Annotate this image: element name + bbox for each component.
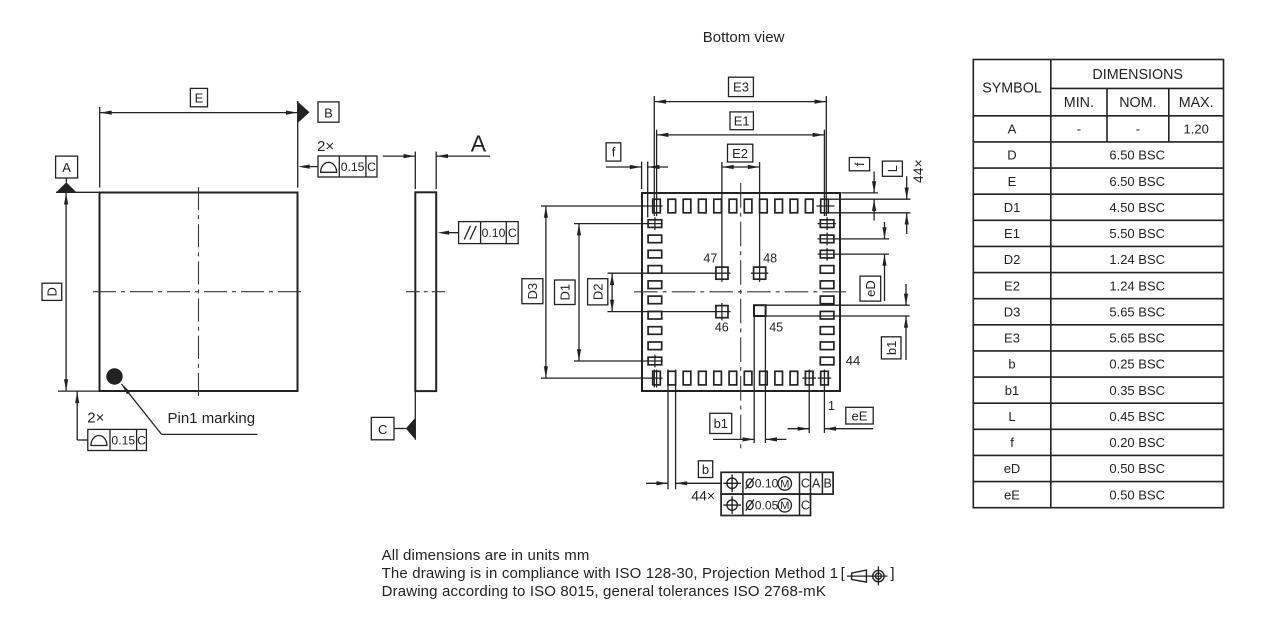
- svg-text:D3: D3: [1004, 304, 1021, 319]
- svg-text:-: -: [1136, 122, 1140, 137]
- svg-text:eD: eD: [1004, 461, 1021, 476]
- svg-text:44×: 44×: [691, 487, 715, 503]
- svg-text:5.65 BSC: 5.65 BSC: [1109, 331, 1165, 346]
- svg-text:6.50 BSC: 6.50 BSC: [1109, 174, 1165, 189]
- svg-text:48: 48: [763, 251, 777, 265]
- svg-text:0.05: 0.05: [755, 499, 779, 513]
- svg-text:4.50 BSC: 4.50 BSC: [1109, 200, 1165, 215]
- svg-text:6.50 BSC: 6.50 BSC: [1109, 148, 1165, 163]
- svg-text:]: ]: [890, 565, 894, 582]
- svg-text:46: 46: [715, 321, 729, 335]
- svg-text:D2: D2: [1004, 252, 1021, 267]
- svg-text:The drawing is in compliance w: The drawing is in compliance with ISO 12…: [382, 565, 839, 582]
- svg-text:L: L: [1008, 409, 1015, 424]
- svg-text:MAX.: MAX.: [1179, 95, 1214, 111]
- svg-text:D1: D1: [1004, 200, 1021, 215]
- svg-text:f: f: [612, 145, 616, 160]
- svg-text:1: 1: [828, 399, 835, 413]
- svg-text:0.45 BSC: 0.45 BSC: [1109, 409, 1165, 424]
- svg-text:D: D: [1007, 148, 1016, 163]
- svg-text:MIN.: MIN.: [1064, 95, 1094, 111]
- svg-text:B: B: [324, 106, 333, 121]
- svg-text:44: 44: [846, 353, 860, 368]
- svg-text:1.24 BSC: 1.24 BSC: [1109, 278, 1165, 293]
- svg-text:A: A: [812, 477, 821, 491]
- svg-text:f: f: [853, 162, 867, 166]
- svg-text:A: A: [1008, 122, 1017, 137]
- svg-text:DIMENSIONS: DIMENSIONS: [1092, 67, 1183, 83]
- svg-text:eD: eD: [863, 280, 878, 297]
- svg-text:M: M: [780, 478, 789, 490]
- svg-text:D1: D1: [558, 284, 573, 301]
- svg-text:C: C: [508, 226, 517, 240]
- svg-text:b1: b1: [884, 341, 899, 355]
- svg-text:Pin1 marking: Pin1 marking: [168, 410, 256, 427]
- svg-text:45: 45: [769, 321, 783, 335]
- svg-text:D3: D3: [525, 283, 540, 300]
- svg-text:eE: eE: [1004, 487, 1020, 502]
- svg-text:E3: E3: [733, 80, 749, 95]
- svg-text:0.10: 0.10: [755, 477, 779, 491]
- svg-text:0.50 BSC: 0.50 BSC: [1109, 461, 1165, 476]
- svg-text:E: E: [195, 90, 204, 105]
- svg-text:A: A: [471, 131, 487, 157]
- svg-text:All dimensions are in units mm: All dimensions are in units mm: [382, 547, 590, 564]
- svg-text:0.35 BSC: 0.35 BSC: [1109, 383, 1165, 398]
- svg-text:5.65 BSC: 5.65 BSC: [1109, 304, 1165, 319]
- svg-text:E3: E3: [1004, 331, 1020, 346]
- svg-text:2×: 2×: [87, 409, 104, 426]
- svg-text:D: D: [45, 287, 60, 296]
- svg-text:b: b: [1008, 357, 1015, 372]
- svg-text:f: f: [1010, 435, 1014, 450]
- svg-text:44×: 44×: [910, 159, 926, 183]
- svg-text:E1: E1: [1004, 226, 1020, 241]
- svg-text:0.10: 0.10: [482, 226, 506, 240]
- svg-text:5.50 BSC: 5.50 BSC: [1109, 226, 1165, 241]
- svg-text:0.20 BSC: 0.20 BSC: [1109, 435, 1165, 450]
- svg-text:eE: eE: [852, 408, 868, 423]
- svg-text:C: C: [137, 433, 146, 447]
- svg-text:1.24 BSC: 1.24 BSC: [1109, 252, 1165, 267]
- svg-text:b1: b1: [1005, 383, 1019, 398]
- svg-text:E2: E2: [1004, 278, 1020, 293]
- svg-text:L: L: [886, 165, 900, 172]
- svg-text:b: b: [702, 462, 709, 477]
- svg-text:Drawing according to ISO 8015,: Drawing according to ISO 8015, general t…: [382, 583, 826, 600]
- svg-text:D2: D2: [590, 283, 605, 300]
- svg-text:2×: 2×: [317, 138, 334, 155]
- svg-text:47: 47: [703, 251, 717, 265]
- svg-text:C: C: [801, 499, 810, 513]
- svg-text:b1: b1: [714, 416, 728, 431]
- svg-text:C: C: [378, 422, 387, 437]
- svg-text:SYMBOL: SYMBOL: [982, 81, 1042, 97]
- svg-text:NOM.: NOM.: [1119, 95, 1156, 111]
- svg-text:0.50 BSC: 0.50 BSC: [1109, 487, 1165, 502]
- svg-text:C: C: [367, 160, 376, 174]
- svg-text:M: M: [780, 500, 789, 512]
- svg-text:C: C: [801, 477, 810, 491]
- svg-text:-: -: [1077, 122, 1081, 137]
- svg-text:0.15: 0.15: [111, 433, 135, 447]
- svg-text:0.15: 0.15: [341, 160, 365, 174]
- svg-text:0.25 BSC: 0.25 BSC: [1109, 357, 1165, 372]
- svg-text:1.20: 1.20: [1184, 122, 1209, 137]
- svg-text:A: A: [62, 160, 71, 175]
- svg-text:E2: E2: [732, 146, 748, 161]
- svg-text:E: E: [1008, 174, 1017, 189]
- svg-text:E1: E1: [734, 114, 750, 129]
- svg-text:B: B: [824, 477, 832, 491]
- svg-text:Bottom view: Bottom view: [703, 29, 785, 46]
